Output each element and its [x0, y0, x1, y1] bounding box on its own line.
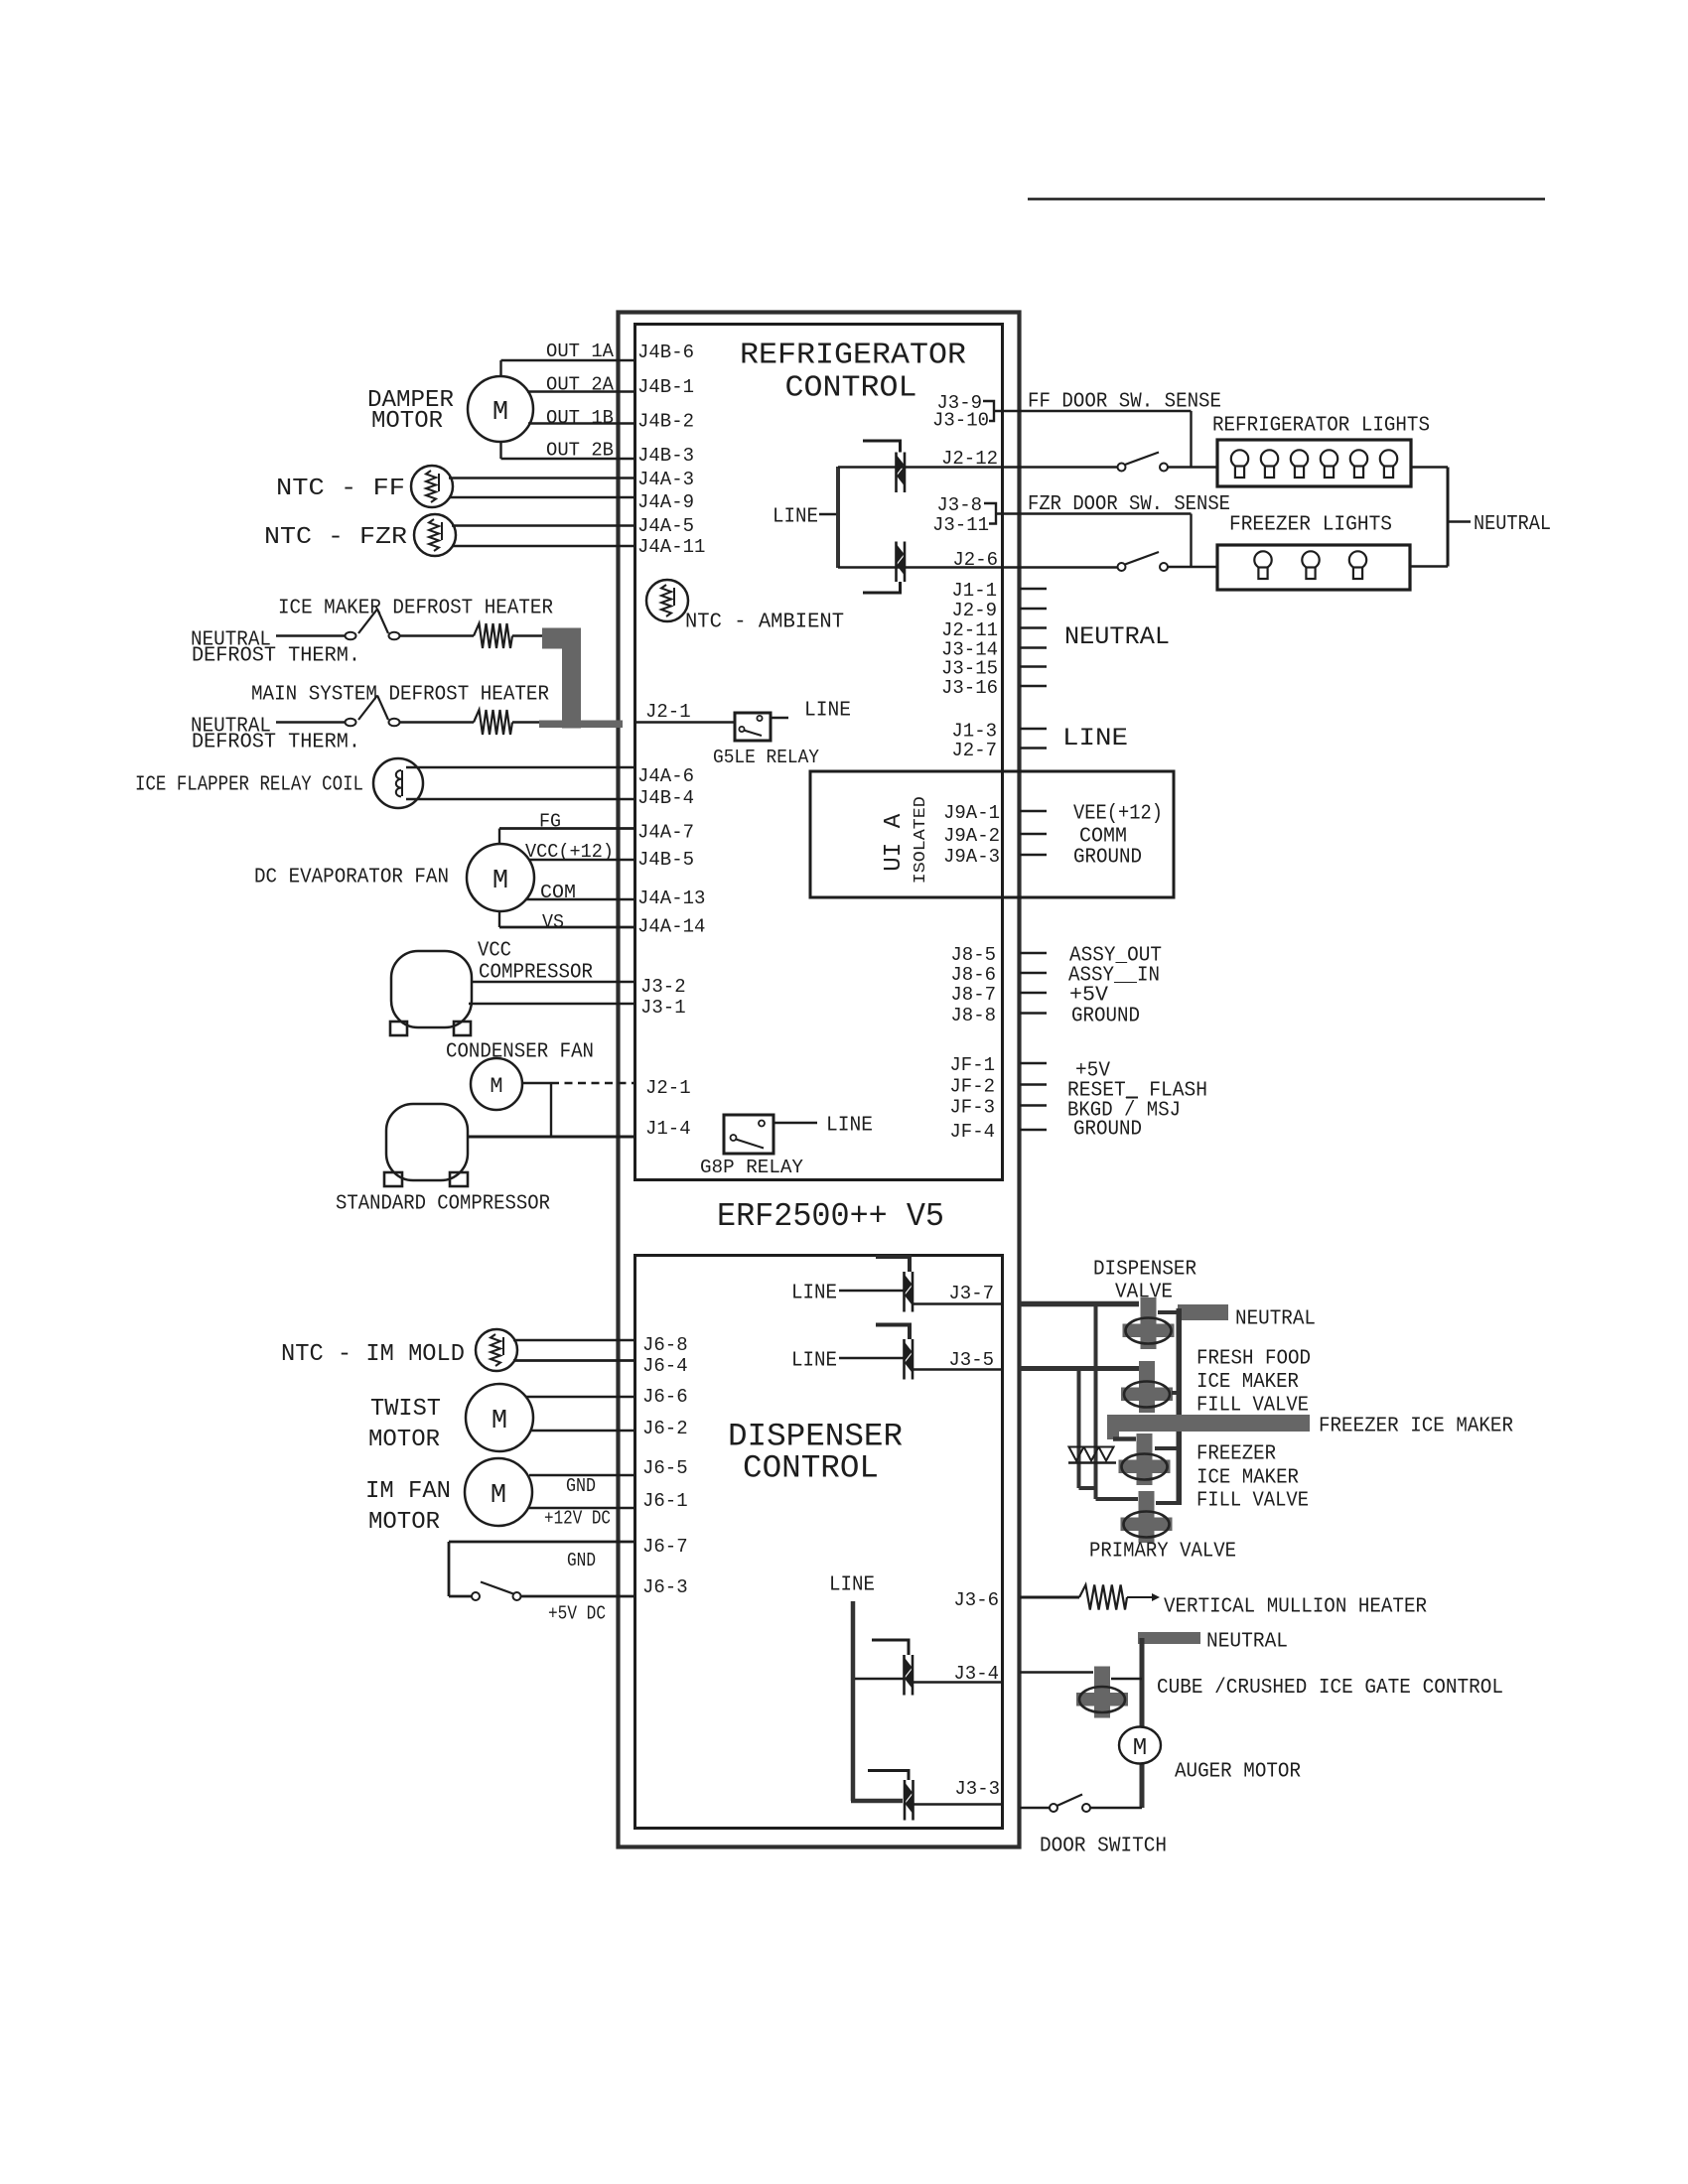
- thermistor NTC - AMBIENT: [646, 580, 688, 621]
- wire thermostat to heater resistor: [400, 634, 474, 636]
- svg-text:COMM: COMM: [1079, 826, 1127, 849]
- svg-text:J4B-6: J4B-6: [637, 341, 694, 363]
- wire OUT 2B to J4B-3: [501, 458, 635, 460]
- svg-text:J4B-4: J4B-4: [637, 787, 694, 809]
- switch +5V DC: [449, 1595, 472, 1598]
- bulb refrigerator light 2: [1261, 450, 1278, 467]
- resistor ice maker defrost heater: [474, 623, 512, 648]
- svg-text:+5V DC: +5V DC: [548, 1602, 606, 1624]
- switch FZR door: [1118, 563, 1126, 571]
- bracket J3-9/J3-10: [983, 401, 994, 421]
- svg-text:J6-1: J6-1: [642, 1490, 688, 1512]
- wire VCC(+12) to J4B-5: [529, 859, 634, 861]
- svg-text:FREEZER: FREEZER: [1196, 1443, 1276, 1466]
- svg-text:G8P RELAY: G8P RELAY: [700, 1157, 804, 1178]
- triac J3-3: [868, 1771, 909, 1781]
- right edge pin stubs: [1020, 588, 1047, 591]
- svg-text:J2-7: J2-7: [951, 740, 997, 761]
- neutral rail (valves): [1177, 1308, 1183, 1505]
- wire valve to neutral bar: [1158, 1310, 1179, 1314]
- wire OUT 1A to J4B-6: [501, 359, 635, 361]
- wire OUT 1B to J4B-2: [528, 422, 634, 424]
- relay G8P box: [724, 1115, 774, 1154]
- svg-text:CUBE /CRUSHED ICE GATE CONTROL: CUBE /CRUSHED ICE GATE CONTROL: [1157, 1677, 1503, 1700]
- wire OUT 2A to J4B-1: [527, 390, 634, 392]
- svg-text:J2-1: J2-1: [645, 701, 691, 723]
- svg-text:CONTROL: CONTROL: [743, 1450, 879, 1487]
- wire J2-1 to G5LE relay: [634, 721, 735, 723]
- svg-text:J3-6: J3-6: [953, 1589, 999, 1611]
- vcc compressor feet: [390, 1022, 407, 1035]
- svg-text:J3-1: J3-1: [640, 997, 686, 1019]
- svg-text:FZR DOOR SW. SENSE: FZR DOOR SW. SENSE: [1028, 493, 1230, 516]
- valve cube/crushed ice gate: [1094, 1667, 1110, 1718]
- svg-text:OUT 2A: OUT 2A: [546, 373, 615, 395]
- svg-text:J6-8: J6-8: [642, 1334, 688, 1356]
- svg-text:VERTICAL MULLION HEATER: VERTICAL MULLION HEATER: [1164, 1596, 1427, 1619]
- svg-text:J3-5: J3-5: [948, 1349, 994, 1371]
- svg-text:J4A-3: J4A-3: [637, 469, 694, 490]
- wire J3-6 to mullion heater: [1020, 1596, 1079, 1599]
- freezer ice maker harness bar: [1107, 1415, 1310, 1432]
- wire compressor to J3-1: [469, 1003, 634, 1005]
- svg-text:J4A-6: J4A-6: [637, 765, 694, 787]
- svg-text:J4B-5: J4B-5: [637, 849, 694, 871]
- wires NTC-FF to J4A-3/J4A-9: [449, 477, 634, 478]
- wires coil to J4A-6/J4B-4: [406, 766, 634, 768]
- top rule line: [1028, 198, 1545, 201]
- wire lights to neutral: [1411, 466, 1448, 468]
- svg-text:NTC - FF: NTC - FF: [276, 476, 405, 502]
- svg-text:JF-4: JF-4: [949, 1121, 995, 1143]
- wire FZR door sense: [996, 512, 1192, 514]
- svg-text:TWIST: TWIST: [370, 1396, 441, 1423]
- elbow freezer bar to freezer valve: [1107, 1432, 1119, 1439]
- svg-text:DEFROST THERM.: DEFROST THERM.: [192, 645, 360, 668]
- svg-text:FG: FG: [539, 810, 561, 832]
- svg-text:NEUTRAL: NEUTRAL: [1474, 513, 1551, 536]
- svg-text:ERF2500++ V5: ERF2500++ V5: [717, 1198, 944, 1235]
- svg-text:LINE: LINE: [791, 1350, 837, 1373]
- defrost thermostat switch (main): [346, 719, 356, 727]
- svg-text:GND: GND: [566, 1475, 596, 1497]
- svg-text:FREEZER LIGHTS: FREEZER LIGHTS: [1229, 514, 1392, 537]
- svg-text:NEUTRAL: NEUTRAL: [1235, 1308, 1316, 1331]
- svg-text:J4A-9: J4A-9: [637, 491, 694, 513]
- wire neutral to defrost thermostat (main): [276, 721, 345, 723]
- UI A isolated box: [810, 771, 1174, 897]
- svg-text:NTC - FZR: NTC - FZR: [264, 524, 407, 551]
- svg-text:J3-10: J3-10: [932, 409, 989, 431]
- svg-text:MOTOR: MOTOR: [371, 408, 443, 435]
- svg-text:MOTOR: MOTOR: [368, 1427, 440, 1453]
- svg-text:MOTOR: MOTOR: [368, 1509, 440, 1536]
- triac J3-5: [876, 1325, 910, 1340]
- svg-text:ISOLATED: ISOLATED: [912, 796, 930, 884]
- standard compressor feet: [384, 1172, 402, 1186]
- bulb freezer light 2: [1302, 551, 1319, 568]
- wire J3-3 to door switch: [1020, 1807, 1050, 1809]
- svg-text:J4B-3: J4B-3: [637, 445, 694, 467]
- wires NTC-FZR to J4A-5/J4A-11: [452, 524, 634, 526]
- relay G5LE box: [735, 713, 771, 741]
- water fill trident: [1069, 1447, 1084, 1461]
- svg-text:J8-6: J8-6: [950, 964, 996, 986]
- valve freezer ice maker fill: [1137, 1433, 1153, 1485]
- svg-text:NEUTRAL: NEUTRAL: [1206, 1631, 1288, 1654]
- switch FF door: [1118, 464, 1126, 472]
- bulb refrigerator light 3: [1291, 450, 1308, 467]
- svg-text:J3-7: J3-7: [948, 1283, 994, 1304]
- wires twist motor to J6-6/J6-2: [526, 1396, 634, 1398]
- bulb freezer light 1: [1254, 551, 1271, 568]
- svg-text:CONDENSER FAN: CONDENSER FAN: [446, 1041, 594, 1064]
- svg-text:OUT 2B: OUT 2B: [546, 439, 614, 461]
- svg-text:J9A-3: J9A-3: [943, 846, 1000, 868]
- svg-text:J6-5: J6-5: [642, 1457, 688, 1479]
- svg-text:IM FAN: IM FAN: [365, 1478, 451, 1505]
- svg-text:J4B-1: J4B-1: [637, 376, 694, 398]
- svg-text:J6-2: J6-2: [642, 1418, 688, 1439]
- svg-text:FF DOOR SW. SENSE: FF DOOR SW. SENSE: [1028, 391, 1221, 414]
- svg-text:DISPENSER: DISPENSER: [1093, 1259, 1196, 1282]
- svg-text:M: M: [492, 398, 508, 428]
- svg-text:DEFROST THERM.: DEFROST THERM.: [192, 732, 360, 754]
- svg-text:GROUND: GROUND: [1071, 1006, 1140, 1028]
- svg-text:VS: VS: [542, 911, 564, 933]
- triac J2-12: [895, 453, 898, 493]
- svg-text:LINE: LINE: [791, 1283, 837, 1305]
- svg-text:OUT 1B: OUT 1B: [546, 407, 614, 429]
- wires im fan motor to J6-5/J6-1: [529, 1474, 634, 1476]
- damper motor bracket: [499, 360, 501, 377]
- wire G8P to LINE: [774, 1122, 817, 1124]
- vcc compressor body: [391, 951, 472, 1027]
- svg-text:J4A-14: J4A-14: [637, 915, 705, 937]
- condenser fan M circle: [471, 1058, 522, 1110]
- svg-text:J9A-1: J9A-1: [943, 802, 1000, 824]
- wire G5LE to LINE: [771, 717, 788, 719]
- wire J3-5 out: [913, 1368, 1002, 1371]
- svg-text:VEE(+12): VEE(+12): [1073, 803, 1163, 826]
- svg-text:J8-7: J8-7: [950, 984, 996, 1006]
- svg-text:J4A-5: J4A-5: [637, 515, 694, 537]
- svg-text:J3-2: J3-2: [640, 976, 686, 998]
- wire J3-4 out: [913, 1681, 1002, 1683]
- wire FF door sense: [994, 410, 1192, 412]
- svg-text:J8-5: J8-5: [950, 944, 996, 966]
- svg-text:LINE: LINE: [826, 1115, 873, 1138]
- resistor main system defrost heater: [474, 710, 512, 735]
- bulb refrigerator light 1: [1231, 450, 1248, 467]
- defrost thermostat switch (ice maker): [346, 632, 356, 640]
- svg-text:JF-2: JF-2: [949, 1075, 995, 1097]
- svg-text:DOOR SWITCH: DOOR SWITCH: [1040, 1836, 1167, 1858]
- svg-text:NEUTRAL: NEUTRAL: [1064, 622, 1170, 651]
- svg-text:J1-1: J1-1: [951, 580, 997, 602]
- svg-text:LINE: LINE: [804, 700, 851, 723]
- svg-text:M: M: [492, 1407, 507, 1436]
- svg-text:JF-1: JF-1: [949, 1054, 995, 1076]
- svg-text:OUT 1A: OUT 1A: [546, 341, 615, 362]
- wire condenser fan (solid + dashed to J2-1): [522, 1082, 551, 1084]
- valve dispenser: [1141, 1297, 1157, 1349]
- triac J3-7: [876, 1257, 910, 1272]
- wire neutral to defrost thermostat: [276, 634, 345, 636]
- neutral bar (dispenser valve): [1178, 1304, 1228, 1320]
- svg-text:MAIN SYSTEM DEFROST HEATER: MAIN SYSTEM DEFROST HEATER: [251, 684, 549, 707]
- svg-text:J3-3: J3-3: [954, 1778, 1000, 1800]
- svg-text:M: M: [1133, 1735, 1147, 1762]
- wire J2-12 rail: [838, 466, 1117, 469]
- refrigerator control inner box: [635, 325, 1003, 1180]
- svg-text:J6-6: J6-6: [642, 1386, 688, 1408]
- refrigerator lights box: [1217, 440, 1411, 486]
- svg-text:COM: COM: [540, 882, 576, 903]
- triac J2-6: [895, 542, 898, 583]
- twist motor M circle: [466, 1384, 533, 1451]
- bulb refrigerator light 5: [1350, 450, 1367, 467]
- wire J3-3 out: [914, 1803, 1003, 1806]
- neutral rail to auger: [1140, 1638, 1145, 1727]
- wire FG to J4A-7: [499, 827, 634, 830]
- svg-text:CONTROL: CONTROL: [785, 370, 917, 405]
- wire standard compressor to J1-4: [468, 1136, 634, 1139]
- ice flapper relay coil circle: [373, 758, 423, 808]
- svg-text:J2-9: J2-9: [951, 600, 997, 621]
- svg-text:J4A-7: J4A-7: [637, 821, 694, 843]
- wire GND to J6-7: [449, 1541, 634, 1544]
- branch v1 from J3-7 wire to primary valve: [1094, 1303, 1098, 1499]
- svg-text:LINE: LINE: [829, 1574, 875, 1597]
- svg-text:J3-8: J3-8: [936, 494, 982, 516]
- svg-text:PRIMARY VALVE: PRIMARY VALVE: [1089, 1541, 1236, 1564]
- svg-text:GND: GND: [567, 1550, 596, 1571]
- svg-text:GROUND: GROUND: [1073, 847, 1142, 870]
- svg-text:J6-3: J6-3: [642, 1576, 688, 1598]
- svg-text:M: M: [490, 1074, 502, 1099]
- svg-text:M: M: [491, 1481, 506, 1511]
- svg-text:DC EVAPORATOR FAN: DC EVAPORATOR FAN: [254, 867, 449, 889]
- wire compressor to J3-2: [471, 981, 634, 983]
- svg-text:J9A-2: J9A-2: [943, 825, 1000, 847]
- bulb freezer light 3: [1349, 551, 1366, 568]
- wire J3-7 out: [913, 1302, 1002, 1305]
- svg-text:VCC: VCC: [478, 940, 511, 963]
- svg-text:J4B-2: J4B-2: [637, 410, 694, 432]
- fan bracket: [498, 829, 500, 845]
- valve primary: [1139, 1491, 1155, 1543]
- svg-text:FREEZER ICE MAKER: FREEZER ICE MAKER: [1319, 1416, 1513, 1438]
- bracket J3-8/J3-11: [984, 503, 996, 524]
- branch v2 from J3-5 wire: [1077, 1367, 1081, 1488]
- svg-text:J1-4: J1-4: [645, 1118, 691, 1140]
- svg-text:J3-16: J3-16: [941, 677, 998, 699]
- svg-text:JF-3: JF-3: [949, 1096, 995, 1118]
- svg-text:REFRIGERATOR LIGHTS: REFRIGERATOR LIGHTS: [1212, 415, 1430, 438]
- svg-text:ICE MAKER DEFROST HEATER: ICE MAKER DEFROST HEATER: [278, 598, 553, 620]
- svg-text:REFRIGERATOR: REFRIGERATOR: [740, 338, 966, 372]
- dispenser control inner box: [635, 1256, 1003, 1829]
- +5V switch bracket: [448, 1542, 451, 1596]
- svg-text:LINE: LINE: [773, 506, 818, 529]
- svg-text:NTC - IM MOLD: NTC - IM MOLD: [281, 1341, 465, 1368]
- wire J2-6 rail: [838, 566, 1117, 569]
- bulb refrigerator light 6: [1380, 450, 1397, 467]
- svg-text:FRESH FOOD: FRESH FOOD: [1196, 1348, 1311, 1371]
- svg-text:J6-4: J6-4: [642, 1355, 688, 1377]
- wire thermostat to heater resistor (main): [400, 721, 474, 723]
- LINE bracket (refrigerator): [836, 467, 840, 568]
- standard compressor body: [386, 1104, 468, 1180]
- damper motor M circle: [468, 376, 533, 442]
- neutral bar (auger): [1138, 1632, 1200, 1644]
- svg-text:+5V: +5V: [1069, 985, 1108, 1008]
- svg-text:VCC(+12): VCC(+12): [525, 841, 614, 863]
- wire COM to J4A-13: [526, 898, 634, 900]
- svg-text:AUGER MOTOR: AUGER MOTOR: [1175, 1761, 1301, 1784]
- LINE rail (dispenser): [851, 1601, 856, 1801]
- auger motor M: [1119, 1727, 1161, 1764]
- svg-text:GROUND: GROUND: [1073, 1119, 1142, 1142]
- svg-text:G5LE RELAY: G5LE RELAY: [713, 747, 820, 768]
- dc evaporator fan M circle: [467, 844, 534, 911]
- svg-text:+12V DC: +12V DC: [544, 1507, 611, 1529]
- switch door: [1050, 1804, 1057, 1812]
- wire J3-5 to fresh food valve: [1020, 1366, 1139, 1371]
- control board outer box: [619, 313, 1020, 1847]
- wire J3-7 to dispenser valve: [1020, 1301, 1139, 1307]
- svg-text:LINE: LINE: [1062, 724, 1128, 752]
- svg-text:NTC - AMBIENT: NTC - AMBIENT: [685, 612, 844, 634]
- resistor vertical mullion heater: [1079, 1585, 1127, 1610]
- thick connector bar (heaters junction): [542, 628, 581, 649]
- wires NTC-IM to J6-8/J6-4: [513, 1339, 634, 1341]
- wire J3-4 to gate valve: [1020, 1671, 1093, 1674]
- bulb refrigerator light 4: [1321, 450, 1337, 467]
- svg-text:M: M: [492, 867, 508, 896]
- svg-text:J2-1: J2-1: [645, 1077, 691, 1099]
- svg-text:FILL VALVE: FILL VALVE: [1196, 1395, 1309, 1418]
- freezer lights box: [1217, 545, 1410, 590]
- svg-text:J8-8: J8-8: [950, 1005, 996, 1026]
- wire VS to J4A-14: [499, 926, 634, 929]
- svg-text:J4A-11: J4A-11: [637, 536, 705, 558]
- svg-text:ICE MAKER: ICE MAKER: [1196, 1371, 1299, 1394]
- svg-text:ICE FLAPPER RELAY COIL: ICE FLAPPER RELAY COIL: [135, 774, 363, 797]
- svg-text:J4A-13: J4A-13: [637, 887, 705, 909]
- im fan motor M circle: [465, 1458, 532, 1526]
- svg-text:ICE MAKER: ICE MAKER: [1196, 1467, 1299, 1490]
- svg-text:UI A: UI A: [881, 813, 908, 872]
- svg-text:J3-11: J3-11: [932, 514, 989, 536]
- svg-text:J6-7: J6-7: [642, 1536, 688, 1558]
- svg-text:FILL VALVE: FILL VALVE: [1196, 1490, 1309, 1513]
- valve fresh food ice maker fill: [1139, 1361, 1155, 1413]
- svg-text:STANDARD COMPRESSOR: STANDARD COMPRESSOR: [336, 1193, 550, 1216]
- triac J3-4: [872, 1640, 909, 1655]
